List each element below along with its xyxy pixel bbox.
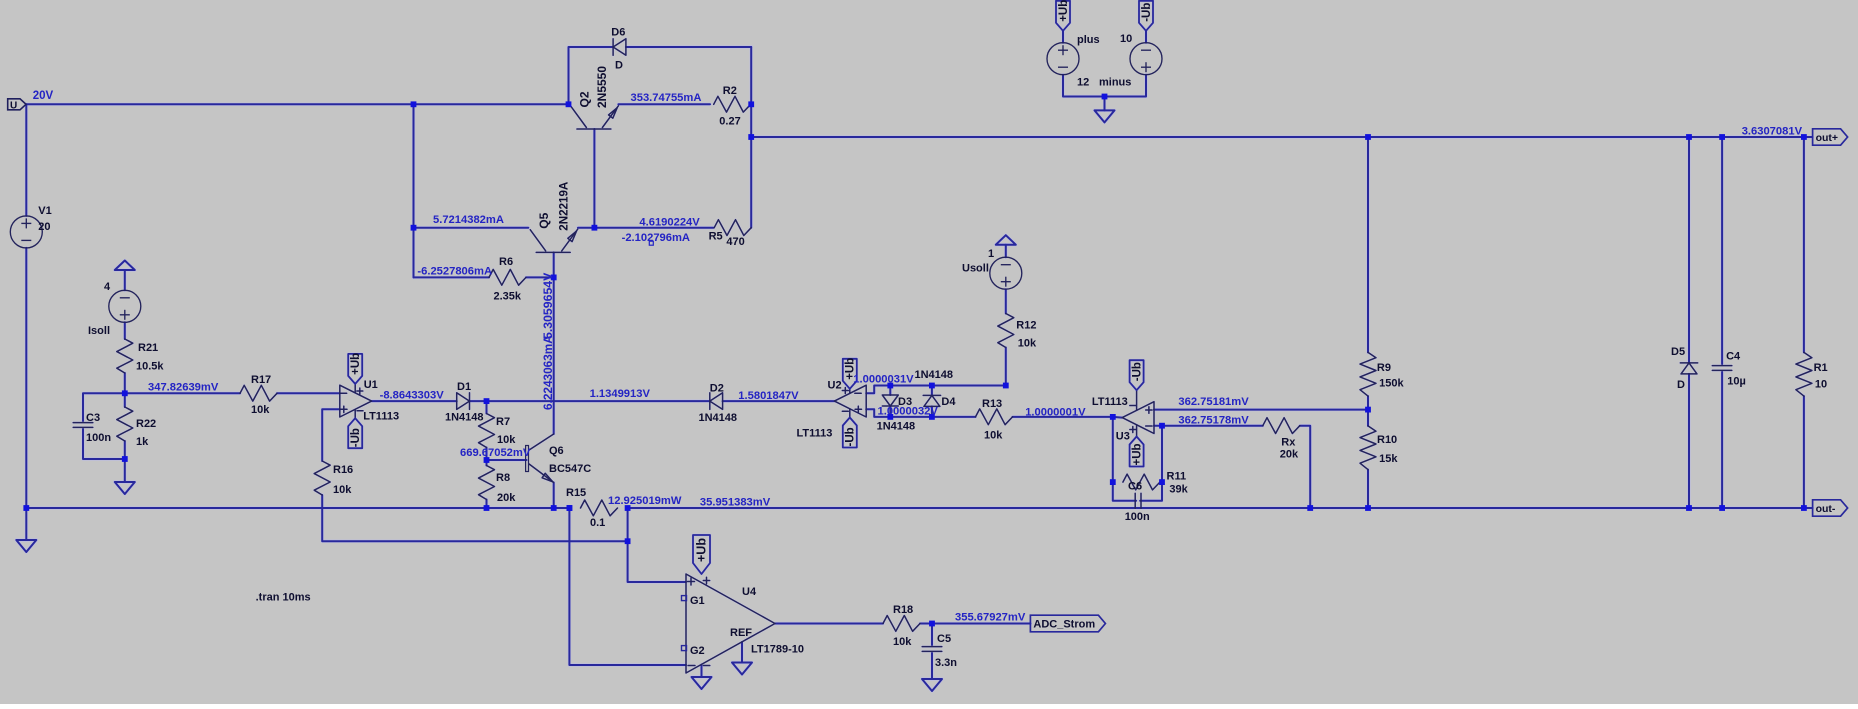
svg-text:0.1: 0.1: [590, 517, 605, 529]
svg-text:.tran 10ms: .tran 10ms: [256, 592, 311, 604]
svg-text:R5: R5: [709, 230, 723, 242]
svg-text:R6: R6: [499, 256, 513, 268]
svg-text:LT1113: LT1113: [797, 428, 833, 440]
svg-text:Isoll: Isoll: [88, 325, 110, 337]
svg-text:-8.8643303V: -8.8643303V: [380, 390, 445, 402]
svg-text:1N4148: 1N4148: [445, 412, 484, 424]
svg-text:362.75178mV: 362.75178mV: [1178, 414, 1249, 426]
svg-text:U1: U1: [364, 379, 378, 391]
svg-text:minus: minus: [1099, 77, 1131, 89]
svg-text:plus: plus: [1077, 34, 1100, 46]
svg-text:10k: 10k: [497, 434, 516, 446]
svg-text:G1: G1: [690, 595, 705, 607]
svg-text:5.3059654V: 5.3059654V: [541, 272, 555, 339]
svg-text:4: 4: [104, 281, 111, 293]
svg-text:R9: R9: [1377, 362, 1391, 374]
svg-text:2N2219A: 2N2219A: [558, 181, 571, 231]
svg-text:100n: 100n: [1125, 511, 1150, 523]
svg-text:BC547C: BC547C: [549, 463, 591, 475]
svg-text:D1: D1: [457, 381, 471, 393]
svg-text:R15: R15: [566, 487, 586, 499]
svg-text:20V: 20V: [33, 90, 54, 102]
svg-text:V1: V1: [38, 205, 51, 217]
svg-text:-Ub: -Ub: [1131, 362, 1143, 381]
svg-text:-Ub: -Ub: [350, 428, 362, 447]
svg-text:3.3n: 3.3n: [935, 657, 957, 669]
svg-text:470: 470: [726, 236, 744, 248]
svg-text:REF: REF: [730, 627, 752, 639]
svg-text:1.1349913V: 1.1349913V: [590, 388, 651, 400]
svg-text:out-: out-: [1816, 503, 1836, 515]
svg-text:Q5: Q5: [537, 212, 551, 228]
svg-text:+Ub: +Ub: [694, 538, 708, 562]
svg-text:3.6307081V: 3.6307081V: [1742, 125, 1803, 137]
svg-text:Q6: Q6: [549, 445, 564, 457]
svg-text:4.6190224V: 4.6190224V: [639, 217, 700, 229]
svg-text:ADC_Strom: ADC_Strom: [1033, 619, 1095, 631]
svg-text:-Ub: -Ub: [1141, 3, 1153, 22]
svg-text:Q2: Q2: [578, 91, 592, 107]
svg-text:D: D: [1677, 379, 1685, 391]
svg-text:5.7214382mA: 5.7214382mA: [433, 214, 504, 226]
svg-text:C3: C3: [86, 412, 100, 424]
svg-text:R17: R17: [251, 374, 271, 386]
svg-text:150k: 150k: [1379, 377, 1404, 389]
svg-text:D2: D2: [710, 382, 724, 394]
svg-text:1N4148: 1N4148: [915, 369, 954, 381]
svg-text:R21: R21: [138, 342, 158, 354]
svg-text:10µ: 10µ: [1727, 375, 1746, 387]
svg-text:D3: D3: [898, 396, 912, 408]
svg-text:15k: 15k: [1379, 453, 1398, 465]
svg-text:1: 1: [988, 248, 994, 260]
svg-text:R16: R16: [333, 464, 353, 476]
svg-text:Rx: Rx: [1281, 436, 1296, 448]
svg-text:20k: 20k: [1280, 448, 1299, 460]
svg-text:+Ub: +Ub: [1131, 443, 1143, 465]
svg-text:LT1113: LT1113: [363, 411, 399, 423]
svg-text:R2: R2: [723, 85, 737, 97]
svg-text:R7: R7: [496, 416, 510, 428]
svg-text:U3: U3: [1116, 430, 1130, 442]
svg-text:1.5801847V: 1.5801847V: [738, 390, 799, 402]
svg-text:347.82639mV: 347.82639mV: [148, 382, 219, 394]
svg-text:39k: 39k: [1169, 484, 1188, 496]
svg-text:669.67052mV: 669.67052mV: [460, 447, 531, 459]
svg-text:-Ub: -Ub: [845, 427, 857, 446]
svg-text:20k: 20k: [497, 492, 516, 504]
svg-text:LT1789-10: LT1789-10: [751, 644, 804, 656]
svg-text:10.5k: 10.5k: [136, 361, 164, 373]
svg-text:0.27: 0.27: [719, 115, 740, 127]
svg-text:362.75181mV: 362.75181mV: [1178, 396, 1249, 408]
svg-text:R10: R10: [1377, 434, 1397, 446]
svg-text:12: 12: [1077, 77, 1089, 89]
svg-text:R12: R12: [1016, 319, 1036, 331]
svg-text:10: 10: [1120, 33, 1132, 45]
svg-text:out+: out+: [1816, 132, 1838, 144]
svg-text:-6.2527806mA: -6.2527806mA: [417, 265, 492, 277]
svg-text:355.67927mV: 355.67927mV: [955, 612, 1026, 624]
svg-text:D5: D5: [1671, 346, 1685, 358]
svg-text:D4: D4: [941, 396, 956, 408]
svg-text:35.951383mV: 35.951383mV: [700, 496, 771, 508]
svg-text:1N4148: 1N4148: [877, 420, 916, 432]
svg-text:Usoll: Usoll: [962, 263, 989, 275]
svg-text:U2: U2: [828, 379, 842, 391]
svg-text:R11: R11: [1167, 471, 1187, 483]
svg-text:+Ub: +Ub: [350, 353, 362, 375]
svg-text:10: 10: [1815, 379, 1827, 391]
svg-text:D6: D6: [611, 27, 625, 39]
svg-text:R18: R18: [893, 604, 913, 616]
svg-text:R13: R13: [982, 398, 1002, 410]
svg-text:1k: 1k: [136, 436, 149, 448]
svg-text:C4: C4: [1726, 351, 1741, 363]
svg-text:D: D: [615, 59, 623, 71]
svg-text:U4: U4: [742, 586, 757, 598]
svg-text:R1: R1: [1814, 362, 1828, 374]
svg-text:10k: 10k: [984, 430, 1003, 442]
svg-text:353.74755mA: 353.74755mA: [631, 92, 702, 104]
svg-text:1N4148: 1N4148: [699, 412, 738, 424]
svg-text:R8: R8: [496, 472, 510, 484]
svg-text:6.2243063mA: 6.2243063mA: [541, 335, 555, 410]
svg-text:R22: R22: [136, 418, 156, 430]
svg-text:-2.102796mA: -2.102796mA: [622, 232, 690, 244]
svg-text:20: 20: [38, 221, 50, 233]
svg-text:U: U: [10, 100, 17, 111]
svg-text:10k: 10k: [893, 636, 912, 648]
svg-text:+Ub: +Ub: [1058, 0, 1070, 22]
svg-text:10k: 10k: [1018, 337, 1037, 349]
svg-text:C5: C5: [937, 633, 951, 645]
svg-text:G2: G2: [690, 645, 705, 657]
svg-text:LT1113: LT1113: [1092, 396, 1128, 408]
svg-text:10k: 10k: [251, 404, 270, 416]
svg-text:10k: 10k: [333, 484, 352, 496]
svg-text:2.35k: 2.35k: [494, 290, 522, 302]
svg-text:2N5550: 2N5550: [595, 66, 609, 108]
svg-text:12.925019mW: 12.925019mW: [608, 495, 682, 507]
svg-text:1.0000031V: 1.0000031V: [853, 374, 914, 386]
svg-text:C6: C6: [1128, 481, 1142, 493]
svg-text:100n: 100n: [86, 432, 111, 444]
svg-text:1.0000001V: 1.0000001V: [1025, 407, 1086, 419]
